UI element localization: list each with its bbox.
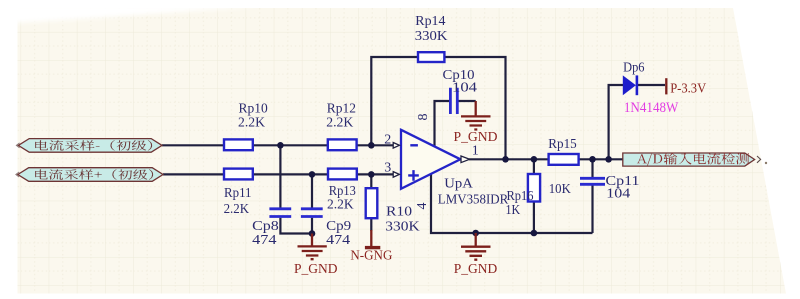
svg-text:2: 2 bbox=[384, 132, 391, 147]
svg-text:10K: 10K bbox=[549, 182, 571, 197]
svg-text:Rp11: Rp11 bbox=[224, 186, 252, 201]
svg-text:2.2K: 2.2K bbox=[238, 115, 265, 130]
svg-text:N-GNG: N-GNG bbox=[350, 247, 392, 262]
svg-text:2.2K: 2.2K bbox=[326, 115, 353, 130]
svg-text:Rp12: Rp12 bbox=[327, 101, 356, 116]
svg-text:1: 1 bbox=[472, 144, 479, 159]
svg-text:Rp15: Rp15 bbox=[548, 137, 576, 152]
svg-text:R10: R10 bbox=[386, 205, 412, 220]
svg-text:8: 8 bbox=[416, 114, 431, 121]
svg-text:P_GND: P_GND bbox=[454, 129, 498, 144]
svg-text:LMV358IDR: LMV358IDR bbox=[438, 193, 509, 208]
svg-text:Rp10: Rp10 bbox=[239, 101, 268, 116]
svg-text:Rp14: Rp14 bbox=[415, 14, 445, 29]
svg-text:4: 4 bbox=[415, 203, 430, 210]
svg-text:P-3.3V: P-3.3V bbox=[670, 81, 706, 96]
svg-text:Cp9: Cp9 bbox=[326, 219, 351, 234]
svg-text:104: 104 bbox=[452, 81, 477, 96]
svg-text:330K: 330K bbox=[385, 220, 419, 235]
svg-text:UpA: UpA bbox=[444, 176, 473, 191]
svg-text:Rp16: Rp16 bbox=[507, 189, 534, 204]
svg-text:2.2K: 2.2K bbox=[224, 202, 250, 217]
svg-text:330K: 330K bbox=[415, 29, 448, 44]
svg-text:Cp8: Cp8 bbox=[252, 219, 279, 234]
svg-text:104: 104 bbox=[606, 186, 630, 201]
svg-text:3: 3 bbox=[384, 160, 391, 175]
svg-text:474: 474 bbox=[252, 233, 276, 248]
svg-text:Dp6: Dp6 bbox=[623, 61, 644, 76]
svg-text:1N4148W: 1N4148W bbox=[624, 100, 679, 116]
svg-text:2.2K: 2.2K bbox=[327, 198, 354, 213]
svg-text:474: 474 bbox=[326, 233, 350, 248]
svg-text:P_GND: P_GND bbox=[294, 261, 338, 276]
svg-text:P_GND: P_GND bbox=[454, 261, 498, 276]
